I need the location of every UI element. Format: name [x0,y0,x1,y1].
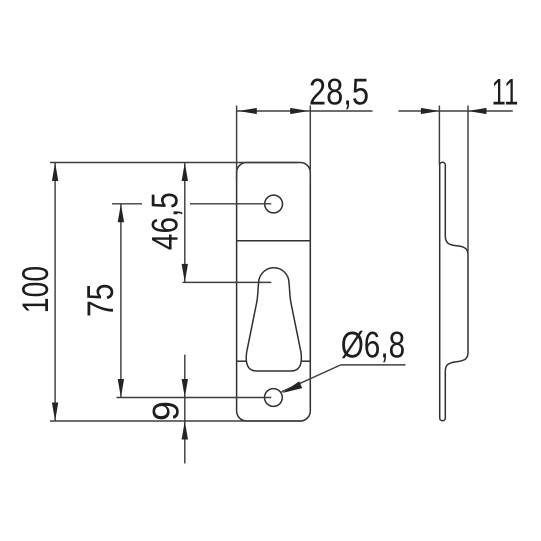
arrow 28,5 right [290,108,309,114]
dim 28,5 left extension [236,106,238,183]
arrow 75 top [118,204,124,223]
svg-text:28,5: 28,5 [309,72,369,113]
bottom hole center extension [117,397,272,399]
dim 9 line [184,355,186,464]
leader underline [341,364,406,366]
arrow 46,5 bottom [182,264,188,283]
top hole center extension left piece [112,203,142,205]
dim 100 line [54,163,56,422]
plate top extension line [50,162,297,164]
bottom hole [265,389,283,407]
dim 46,5 line [184,163,186,283]
bend line upper [237,240,310,242]
top hole [265,195,283,213]
dim 28,5 line [237,110,373,112]
svg-text:75: 75 [80,284,121,318]
arrow 75 bottom [118,379,124,398]
dim 28,5 right extension [309,106,311,183]
plate bottom extension line [50,420,302,422]
arrow 11 left [421,108,440,114]
svg-text:100: 100 [15,266,56,313]
dim 11 middle segment [439,110,468,112]
top hole center extension right piece [190,203,271,205]
arrow 100 top [52,163,58,182]
bend line lower right segment [301,360,310,362]
dim 11 left extension [438,106,440,166]
keyhole slot [246,268,301,371]
bend line lower left segment [237,360,246,362]
arrow 28,5 left [238,108,256,114]
dim 11 right tail [468,110,513,112]
svg-text:Ø6,8: Ø6,8 [341,325,405,366]
svg-text:9: 9 [145,401,186,421]
svg-text:11: 11 [492,72,519,113]
arrow 9 top outside [182,379,188,398]
dim 75 line [120,204,122,398]
dim 11 right extension [467,106,469,253]
arrow 11 right [468,108,487,114]
dim 11 left tail [398,110,439,112]
plate outline (front view) [237,163,311,422]
leader diagonal for diameter label [282,365,341,392]
arrow 100 bottom [52,403,58,422]
arrow 46,5 top [182,163,188,182]
side profile outline [440,162,468,421]
slot center extension line [183,281,272,283]
arrow leader diameter [282,381,302,393]
arrow 9 bottom outside [182,421,188,440]
svg-text:46,5: 46,5 [145,192,186,250]
